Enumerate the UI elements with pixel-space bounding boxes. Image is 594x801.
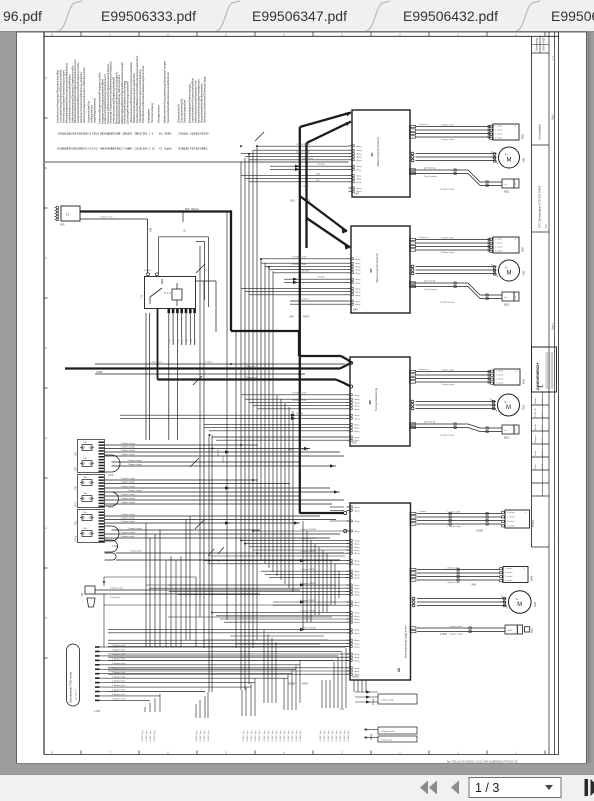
relay K1 xyxy=(147,273,150,276)
svg-text:Ausg: Ausg xyxy=(355,646,361,649)
svg-text:1.5qmm rt/sw: 1.5qmm rt/sw xyxy=(112,644,126,647)
toolbar xyxy=(0,775,594,801)
svg-text:1.5qmm rt/sw: 1.5qmm rt/sw xyxy=(112,653,126,656)
svg-text:1F9: 1F9 xyxy=(75,467,78,472)
FSD pin column xyxy=(95,646,100,648)
motor 2M1 xyxy=(498,394,520,416)
svg-text:1.5qmm sw/gn: 1.5qmm sw/gn xyxy=(121,482,136,484)
svg-text:Schnittstelle FSD vorne: Schnittstelle FSD vorne xyxy=(69,671,73,703)
svg-text:1 K6M 1.5gn: 1 K6M 1.5gn xyxy=(146,731,148,742)
svg-text:8CXxB: 8CXxB xyxy=(318,164,325,166)
svg-text:1CXXB 1CXxB: 1CXXB 1CXxB xyxy=(296,152,310,154)
svg-text:1 sw/ws: 1 sw/ws xyxy=(505,580,512,582)
svg-text:1 K6M 1.5gn: 1 K6M 1.5gn xyxy=(276,731,278,742)
svg-text:1.5qmm sw/gn: 1.5qmm sw/gn xyxy=(121,486,136,488)
motor 3M3 xyxy=(509,591,532,614)
B3 temp feed slanted xyxy=(411,424,503,428)
svg-text:Ausg: Ausg xyxy=(355,401,361,404)
svg-text:A: A xyxy=(44,77,48,79)
svg-text:6F1: 6F1 xyxy=(75,451,78,456)
svg-text:1.5qmm sw/gn: 1.5qmm sw/gn xyxy=(121,502,136,504)
svg-text:M7: M7 xyxy=(370,152,374,156)
svg-text:Ausg: Ausg xyxy=(357,187,363,190)
svg-text:6B13: 6B13 xyxy=(504,437,510,440)
svg-text:1CXXB 4CXxB: 1CXXB 4CXxB xyxy=(292,392,306,394)
svg-text:16qmm sw: 16qmm sw xyxy=(419,369,429,371)
svg-text:Ausg: Ausg xyxy=(355,670,361,673)
long wire from left frame y162 xyxy=(45,161,349,163)
svg-text:43XX: 43XX xyxy=(303,316,309,319)
svg-text:8X: 8X xyxy=(168,132,171,136)
svg-text:1SB 8CXxB: 1SB 8CXxB xyxy=(302,158,314,160)
relay bottom pin row xyxy=(168,309,171,313)
connector block 5K6M xyxy=(505,510,530,528)
svg-text:43XX: 43XX xyxy=(302,683,308,686)
svg-text:1.5gn: 1.5gn xyxy=(169,339,171,344)
svg-text:1 sw/ws: 1 sw/ws xyxy=(507,521,514,523)
mesh horizontals xyxy=(210,555,345,557)
thick into B4 xyxy=(299,509,301,514)
svg-text:X2: X2 xyxy=(159,147,163,151)
relay loop wiring right xyxy=(159,236,209,238)
svg-text:B2: B2 xyxy=(204,147,208,151)
svg-text:8Wge: 8Wge xyxy=(370,733,373,740)
svg-text:Ausg: Ausg xyxy=(355,414,361,417)
svg-text:Ausg: Ausg xyxy=(357,174,363,177)
mesh verticals left-mid xyxy=(165,560,167,647)
svg-text:1.5qmm sw/gn: 1.5qmm sw/gn xyxy=(121,454,136,456)
svg-text:1B8: 1B8 xyxy=(184,147,189,151)
svg-text:M: M xyxy=(506,405,511,411)
svg-text:1.5qmm sw/bl: 1.5qmm sw/bl xyxy=(441,124,454,126)
svg-text:1.5qmm sw/gn: 1.5qmm sw/gn xyxy=(121,514,136,516)
svg-text:Ausg: Ausg xyxy=(356,294,362,297)
svg-text:1.5qmm rt/sw: 1.5qmm rt/sw xyxy=(112,666,126,669)
svg-text:9 K6M: 9 K6M xyxy=(144,270,150,272)
fuse group 6F1 xyxy=(78,440,105,473)
svg-text:Ausg: Ausg xyxy=(357,165,363,168)
svg-text:96.pdf: 96.pdf xyxy=(3,8,42,24)
svg-text:A6: A6 xyxy=(397,668,401,672)
svg-text:1 sw/ws: 1 sw/ws xyxy=(495,238,502,240)
svg-text:1 MIX: 1 MIX xyxy=(470,584,477,587)
svg-text:0.5qmm ws/gn: 0.5qmm ws/gn xyxy=(110,588,123,590)
thick CAN verticals xyxy=(299,127,301,510)
verticals fuse-to-FSD xyxy=(149,538,151,647)
svg-text:1.5qmm sw/gn: 1.5qmm sw/gn xyxy=(121,536,136,538)
svg-text:1.5qmm rt/sw: 1.5qmm rt/sw xyxy=(112,675,126,678)
first-page icon xyxy=(420,781,428,795)
junction dots fuse area xyxy=(209,434,211,436)
svg-text:Bediensteinheit/Schutzabdeckun: Bediensteinheit/Schutzabdeckung/Steuerun… xyxy=(163,60,167,123)
svg-text:1 K6M 1.5gn: 1 K6M 1.5gn xyxy=(204,731,206,742)
svg-text:1.5gn: 1.5gn xyxy=(173,339,175,344)
svg-text:1 K6M 1.5gn: 1 K6M 1.5gn xyxy=(268,731,270,742)
svg-text:U.9X: U.9X xyxy=(108,474,114,477)
svg-text:Ausg: Ausg xyxy=(356,300,362,303)
svg-text:G: G xyxy=(44,617,48,619)
svg-text:U3X: U3X xyxy=(290,200,295,203)
svg-text:1.5qmm sw/gn: 1.5qmm sw/gn xyxy=(128,460,143,462)
svg-text:U4X: U4X xyxy=(289,316,294,319)
svg-text:05.06: 05.06 xyxy=(542,463,544,469)
svg-text:Blatt: Blatt xyxy=(545,223,548,228)
D loop pair mid-left xyxy=(105,553,117,560)
svg-text:1 sw/ws: 1 sw/ws xyxy=(495,137,502,139)
svg-text:Ausg: Ausg xyxy=(355,577,361,580)
svg-text:Ausg: Ausg xyxy=(357,168,363,171)
svg-text:1.5gn: 1.5gn xyxy=(190,339,192,344)
svg-text:1CXXB 4CXxB: 1CXXB 4CXxB xyxy=(296,144,310,146)
svg-text:Ausg: Ausg xyxy=(355,546,361,549)
svg-text:1.19X: 1.19X xyxy=(112,545,119,548)
svg-text:X5: X5 xyxy=(168,147,172,151)
svg-text:1.5qmm rt/sw: 1.5qmm rt/sw xyxy=(112,689,126,692)
bottom connector group X21 xyxy=(355,691,378,693)
svg-text:Ausg: Ausg xyxy=(355,587,361,590)
svg-text:Ausg: Ausg xyxy=(355,629,361,632)
svg-text:Ope Kreterbg: Ope Kreterbg xyxy=(424,288,437,291)
slash symbols (twisted pair marks) xyxy=(255,132,264,141)
svg-text:K2: K2 xyxy=(152,147,156,151)
svg-text:1.5qmm 1CXXB: 1.5qmm 1CXXB xyxy=(300,583,316,585)
svg-text:1 sw/ws: 1 sw/ws xyxy=(505,568,512,570)
svg-text:E: E xyxy=(44,437,48,439)
svg-text:Ausg: Ausg xyxy=(355,584,361,587)
svg-text:1.5qmm rt/sw: 1.5qmm rt/sw xyxy=(112,693,126,696)
wire X95 pin2 to relay xyxy=(80,218,148,220)
svg-text:1 K6M 1.5gn: 1 K6M 1.5gn xyxy=(344,731,346,742)
svg-text:1 sw/ws: 1 sw/ws xyxy=(496,370,503,372)
svg-text:Ausg: Ausg xyxy=(355,398,361,401)
svg-text:1 br: 1 br xyxy=(504,297,508,299)
horizontals into B2 xyxy=(261,258,348,260)
harness vertical wires xyxy=(240,162,242,690)
svg-text:1.5qmm sw/bl: 1.5qmm sw/bl xyxy=(441,369,454,371)
ECU block xyxy=(350,503,411,680)
svg-text:3~: 3~ xyxy=(505,152,509,156)
ECU block M7 xyxy=(351,226,410,313)
svg-text:Ausg: Ausg xyxy=(355,530,361,533)
svg-text:Ausg: Ausg xyxy=(355,539,361,542)
connector block 6M2 xyxy=(493,237,519,253)
fuse group 7Q1 xyxy=(78,510,105,543)
svg-text:Ausg: Ausg xyxy=(355,549,361,552)
svg-text:2Q: 2Q xyxy=(159,132,162,136)
svg-text:Hupe/Magnetbremse/: Hupe/Magnetbremse/ xyxy=(93,98,97,123)
Schnittstelle FSD vorne stadium label xyxy=(67,644,80,706)
svg-text:Fahrtrichtungsschalt: Fahrtrichtungsschalt xyxy=(183,99,187,123)
svg-text:1 K6M 1.5gn: 1 K6M 1.5gn xyxy=(272,731,274,742)
svg-text:1.5qmm 1CXXB: 1.5qmm 1CXXB xyxy=(300,569,316,571)
svg-text:3G6: 3G6 xyxy=(531,628,534,633)
svg-text:Bremsansteuerung/Lichter: Bremsansteuerung/Lichter xyxy=(404,625,408,658)
svg-text:1.5qmm rt/sw: 1.5qmm rt/sw xyxy=(112,680,126,683)
frame zone ticks left xyxy=(44,117,48,119)
motor 3M1 xyxy=(499,147,520,168)
svg-text:Norm: Norm xyxy=(534,463,537,469)
svg-text:Ausg: Ausg xyxy=(355,427,361,430)
frame zone ticks top/bottom xyxy=(80,32,82,36)
junction dots xyxy=(240,145,242,147)
svg-text:2 K6M: 2 K6M xyxy=(440,634,447,636)
svg-text:Ausg: Ausg xyxy=(355,552,361,555)
svg-text:1 sw/ws: 1 sw/ws xyxy=(495,250,502,252)
svg-text:1.5qmm sw/gn: 1.5qmm sw/gn xyxy=(121,532,136,534)
svg-text:1.5qmm rt/sw: 1.5qmm rt/sw xyxy=(112,662,126,665)
svg-text:ge8 freterbg: ge8 freterbg xyxy=(424,167,436,170)
svg-text:RF1: RF1 xyxy=(75,501,78,506)
svg-text:Ausg: Ausg xyxy=(355,618,361,621)
svg-text:1.5qmm sw/gn: 1.5qmm sw/gn xyxy=(128,464,143,466)
svg-text:Sicherung Steuerstrom/Sicherun: Sicherung Steuerstrom/Sicherung Haupt xyxy=(203,76,207,123)
dashed link xyxy=(164,292,172,294)
svg-text:Ausg: Ausg xyxy=(356,287,362,290)
title block logo cell (JUNGHEINRICH) xyxy=(532,347,557,392)
thick battery bus xyxy=(80,210,232,212)
svg-text:1 K6M 1.5gn: 1 K6M 1.5gn xyxy=(348,731,350,742)
svg-text:2 K6M: 2 K6M xyxy=(507,630,513,632)
svg-text:1.5qmm rt/sw: 1.5qmm rt/sw xyxy=(112,698,126,701)
prev-page icon xyxy=(451,781,459,795)
svg-text:1.5qmm 1CXXB: 1.5qmm 1CXXB xyxy=(300,627,316,629)
svg-text:Seite 2: Seite 2 xyxy=(551,322,554,330)
svg-text:ETC Stromlaufplan ETV Z16: ETC Stromlaufplan ETV Z16 SHGE xyxy=(538,185,542,228)
svg-text:Ausg: Ausg xyxy=(355,405,361,408)
svg-text:Ausg: Ausg xyxy=(355,615,361,618)
svg-text:8B1: 8B1 xyxy=(143,132,148,136)
svg-text:9a-701-p5 05 A6531-12-52 0M: 9a-701-p5 05 A6531-12-52 0M AQBRNEGATIV0… xyxy=(447,760,518,764)
svg-text:D: D xyxy=(44,347,48,349)
svg-text:1 K6M 1.5gn: 1 K6M 1.5gn xyxy=(196,731,198,742)
ECU block M8 xyxy=(350,357,410,446)
thick diagonals into B1 xyxy=(300,113,351,128)
thick pair into B3 xyxy=(65,367,340,369)
svg-text:3M1: 3M1 xyxy=(523,157,526,162)
svg-text:Ausg: Ausg xyxy=(357,149,363,152)
svg-text:Ausg: Ausg xyxy=(355,423,361,426)
svg-text:1.5 rt/bl: 1.5 rt/bl xyxy=(296,412,303,415)
svg-text:2.5qmm rt/sw: 2.5qmm rt/sw xyxy=(100,216,113,219)
svg-text:U4X: U4X xyxy=(353,309,358,312)
svg-text:1 K6M 1.5gn: 1 K6M 1.5gn xyxy=(280,731,282,742)
svg-text:21X: 21X xyxy=(316,180,320,182)
svg-text:1.5qmm sw/gn: 1.5qmm sw/gn xyxy=(121,443,136,445)
connector block 6M1 xyxy=(493,124,519,140)
title block date col divider xyxy=(542,392,544,496)
svg-text:Ausg: Ausg xyxy=(355,573,361,576)
svg-text:Datum: Datum xyxy=(534,397,537,404)
svg-text:05.06: 05.06 xyxy=(542,437,544,443)
svg-text:6M3: 6M3 xyxy=(523,379,526,384)
svg-text:Anzeigeinstrum: Anzeigeinstrum xyxy=(157,105,161,123)
svg-text:1.5qmm rt/sw: 1.5qmm rt/sw xyxy=(112,671,126,674)
svg-text:1 K6M 1.5gn: 1 K6M 1.5gn xyxy=(320,731,322,742)
svg-text:X13.1: X13.1 xyxy=(223,455,225,462)
svg-text:2SB: 2SB xyxy=(316,174,321,176)
svg-text:Ausg: Ausg xyxy=(357,181,363,184)
svg-text:05.06: 05.06 xyxy=(542,450,544,456)
svg-text:1.5 ge/sw: 1.5 ge/sw xyxy=(300,186,309,188)
B4 top-left circled pins xyxy=(344,511,347,514)
svg-text:102: 102 xyxy=(184,132,189,136)
svg-text:Ausg: Ausg xyxy=(356,265,362,268)
wires from fuse groups to right xyxy=(105,444,259,446)
svg-text:1.5qmm sw/gn: 1.5qmm sw/gn xyxy=(121,498,136,500)
svg-text:Ausg: Ausg xyxy=(357,152,363,155)
svg-text:Steuerung Fahrmotoren: Steuerung Fahrmotoren xyxy=(375,252,379,282)
svg-text:1 sw/ws: 1 sw/ws xyxy=(507,516,514,518)
svg-text:1.5qmm sw/gn: 1.5qmm sw/gn xyxy=(121,447,136,449)
svg-text:M: M xyxy=(507,158,512,164)
svg-text:1: 1 xyxy=(539,385,545,388)
svg-text:Ausg: Ausg xyxy=(355,642,361,645)
svg-text:Datenstecker/Hubhoehenmessung/: Datenstecker/Hubhoehenmessung/Senkven xyxy=(166,72,170,123)
svg-text:B43: B43 xyxy=(143,147,148,151)
B1 temp feed slanted xyxy=(411,170,503,182)
temperature sensor 6B11 xyxy=(502,179,514,188)
svg-text:6M2: 6M2 xyxy=(522,247,525,252)
svg-text:05.06: 05.06 xyxy=(542,424,544,430)
connector block 6M3 xyxy=(494,369,520,385)
J1985 wire pair xyxy=(95,363,345,365)
svg-text:Ausg: Ausg xyxy=(355,543,361,546)
svg-text:0.5qmm gn: 0.5qmm gn xyxy=(381,740,393,742)
svg-text:U3X: U3X xyxy=(354,193,359,196)
svg-text:M1: M1 xyxy=(94,147,98,151)
horizontals into B4 xyxy=(330,506,344,508)
svg-text:1.5gn: 1.5gn xyxy=(195,339,197,344)
svg-text:6M1: 6M1 xyxy=(522,134,525,139)
svg-text:Blatt 1: Blatt 1 xyxy=(551,113,554,120)
tab bar xyxy=(0,0,594,32)
svg-text:2M1: 2M1 xyxy=(523,405,526,410)
svg-text:1.5qmm rt/gn: 1.5qmm rt/gn xyxy=(381,699,395,702)
svg-text:1.5qmm 1CXXB: 1.5qmm 1CXXB xyxy=(300,529,316,531)
svg-text:Ausg: Ausg xyxy=(355,430,361,433)
thick minus bus xyxy=(157,309,159,380)
svg-text:1 br: 1 br xyxy=(504,430,508,432)
svg-text:Bearb.: Bearb. xyxy=(534,423,537,430)
svg-text:E99506347.pdf: E99506347.pdf xyxy=(252,8,347,24)
svg-text:1.5qmm sw/gn: 1.5qmm sw/gn xyxy=(121,478,136,480)
svg-text:1CXXB 1CXxB: 1CXXB 1CXxB xyxy=(440,302,454,304)
svg-text:1.5qmm sw/gn: 1.5qmm sw/gn xyxy=(121,521,136,523)
svg-text:1 K6M 1.5gn: 1 K6M 1.5gn xyxy=(292,731,294,742)
svg-text:Ausg: Ausg xyxy=(356,269,362,272)
thick diagonals into B2 xyxy=(300,196,347,232)
svg-text:1 sw/ws: 1 sw/ws xyxy=(495,133,502,135)
svg-text:Ausg: Ausg xyxy=(355,563,361,566)
svg-text:Ausg: Ausg xyxy=(355,621,361,624)
window right edge darker band xyxy=(588,32,591,763)
note: drop groups simplified xyxy=(149,703,151,712)
svg-text:3~: 3~ xyxy=(504,400,508,404)
svg-text:H.8X: H.8X xyxy=(108,506,114,509)
svg-text:1.5qmm sw/gn: 1.5qmm sw/gn xyxy=(121,518,136,520)
svg-text:1.19X: 1.19X xyxy=(94,710,101,713)
svg-text:7Q1: 7Q1 xyxy=(75,520,78,525)
B2 temp feed slanted xyxy=(411,283,503,295)
svg-text:Ausg: Ausg xyxy=(355,639,361,642)
svg-text:1 K6M 1.5gn: 1 K6M 1.5gn xyxy=(251,731,253,742)
svg-text:1 K6M 1.5gn: 1 K6M 1.5gn xyxy=(208,731,210,742)
svg-text:BAT+ 95qmm: BAT+ 95qmm xyxy=(185,208,199,211)
svg-text:U5X: U5X xyxy=(352,442,357,445)
svg-text:Ausg: Ausg xyxy=(355,604,361,607)
battery connector X95 xyxy=(61,206,80,221)
svg-text:1 sw/ws: 1 sw/ws xyxy=(495,246,502,248)
svg-text:1.5qmm rt/sw: 1.5qmm rt/sw xyxy=(112,657,126,660)
svg-text:1 sw/ws: 1 sw/ws xyxy=(496,378,503,380)
svg-text:1.5qmm sw/gn: 1.5qmm sw/gn xyxy=(128,490,143,492)
svg-text:25qmm rt: 25qmm rt xyxy=(246,365,256,368)
svg-text:0.5qmm ws/bl: 0.5qmm ws/bl xyxy=(381,731,395,733)
svg-text:Ausg: Ausg xyxy=(356,291,362,294)
svg-text:X13.2: X13.2 xyxy=(218,449,220,456)
svg-text:Ausg: Ausg xyxy=(357,145,363,148)
svg-text:4Wge: 4Wge xyxy=(372,698,375,705)
svg-text:(vorn/Teil 1): (vorn/Teil 1) xyxy=(76,689,78,700)
svg-text:Stromlaufplan: Stromlaufplan xyxy=(538,123,542,140)
bottom grey gap xyxy=(0,764,594,775)
svg-text:E99506432.pdf: E99506432.pdf xyxy=(403,8,498,24)
svg-text:1 K6M 1.5gn: 1 K6M 1.5gn xyxy=(200,731,202,742)
svg-text:1 sw/ws: 1 sw/ws xyxy=(507,525,514,527)
svg-text:1 sw/ws: 1 sw/ws xyxy=(505,572,512,574)
svg-text:3~: 3~ xyxy=(516,597,520,601)
svg-text:1 sw/ws: 1 sw/ws xyxy=(507,512,514,514)
inline fuse boxes bottom row xyxy=(505,625,517,634)
svg-text:Ausg: Ausg xyxy=(355,632,361,635)
svg-text:1.5qmm 1CXXB: 1.5qmm 1CXXB xyxy=(300,600,316,602)
svg-text:E99506333.pdf: E99506333.pdf xyxy=(101,8,196,24)
svg-text:Ausg: Ausg xyxy=(355,570,361,573)
svg-text:1.5qmm: 1.5qmm xyxy=(205,362,213,364)
svg-text:2F13: 2F13 xyxy=(75,535,78,541)
right clipped next icon xyxy=(585,779,589,796)
svg-text:1MDE: 1MDE xyxy=(288,683,295,686)
svg-text:Ope Kreterbg: Ope Kreterbg xyxy=(424,175,437,178)
svg-text:1 K6M 1.5gn: 1 K6M 1.5gn xyxy=(154,731,156,742)
svg-text:1.5qmm sw/rt: 1.5qmm sw/rt xyxy=(150,361,163,364)
svg-text:1 K6M 1.5gn: 1 K6M 1.5gn xyxy=(296,731,298,742)
svg-text:16qmm sw: 16qmm sw xyxy=(419,124,429,126)
svg-text:Ausg: Ausg xyxy=(355,520,361,523)
svg-text:23.01.06: 23.01.06 xyxy=(535,408,537,417)
svg-text:1CXXB 4CXxB: 1CXXB 4CXxB xyxy=(292,257,306,259)
svg-text:Drehzahlsensor/Batterieentlade: Drehzahlsensor/Batterieentladeanzeiger/S… xyxy=(141,65,145,123)
svg-text:Ausg: Ausg xyxy=(356,278,362,281)
svg-text:1.5qmm ws/gn: 1.5qmm ws/gn xyxy=(441,384,455,386)
fuse group 1F8 xyxy=(78,475,105,508)
svg-text:ge8 freterbg: ge8 freterbg xyxy=(424,421,436,424)
svg-text:Ausg: Ausg xyxy=(355,408,361,411)
svg-text:Ausg: Ausg xyxy=(355,612,361,615)
svg-text:Benennung: Benennung xyxy=(536,38,539,51)
svg-text:1.5gn: 1.5gn xyxy=(177,339,179,344)
svg-text:Ausg: Ausg xyxy=(355,656,361,659)
temperature sensor 6B13 xyxy=(502,425,514,434)
title block top cells xyxy=(532,44,550,46)
svg-text:1 K6M 1.5gn: 1 K6M 1.5gn xyxy=(150,731,152,742)
svg-text:Ausg: Ausg xyxy=(357,156,363,159)
svg-text:Ausg: Ausg xyxy=(355,436,361,439)
svg-text:1.5gn: 1.5gn xyxy=(182,339,184,344)
svg-text:1 K6M 1.5gn: 1 K6M 1.5gn xyxy=(324,731,326,742)
svg-text:2.5qmm: 2.5qmm xyxy=(419,511,427,513)
svg-text:1 sw/ws: 1 sw/ws xyxy=(495,129,502,131)
